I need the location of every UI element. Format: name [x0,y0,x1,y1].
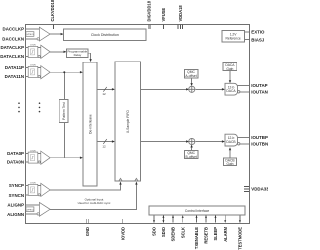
svg-text:DACB: DACB [226,140,236,144]
svg-text:CLKVDD18: CLKVDD18 [50,0,55,22]
svg-text:SDO: SDO [152,226,157,236]
svg-text:DATACLKP: DATACLKP [1,45,25,50]
svg-text:ALARM: ALARM [223,226,228,241]
svg-text:Pattern Test: Pattern Test [62,102,66,120]
svg-text:BIASJ: BIASJ [251,38,264,43]
svg-text:DATA11P: DATA11P [5,65,24,70]
svg-text:DATA11N: DATA11N [5,74,24,79]
svg-text:Gain: Gain [226,67,233,71]
svg-text:EXTIO: EXTIO [251,30,265,35]
svg-text:LVDS: LVDS [30,150,36,152]
svg-text:B-offset: B-offset [186,155,197,159]
svg-text:Delay: Delay [74,53,82,57]
svg-text:SDIO: SDIO [161,226,166,237]
svg-text:LVPECL: LVPECL [26,34,35,36]
svg-text:IOVDD: IOVDD [120,227,125,240]
svg-text:Control Interface: Control Interface [185,209,210,213]
svg-text:TESTMODE: TESTMODE [238,227,243,250]
svg-text:IOUTAP: IOUTAP [251,83,267,88]
svg-text:VFUSE: VFUSE [161,8,166,22]
svg-text:Used for multi-DAC sync: Used for multi-DAC sync [78,201,111,205]
svg-text:DACCLKP: DACCLKP [3,26,25,31]
svg-text:DATA0P: DATA0P [7,151,24,156]
svg-text:IOUTBP: IOUTBP [251,135,268,140]
svg-text:DACA: DACA [226,89,236,93]
svg-text:SYNCN: SYNCN [9,193,24,198]
svg-text:TXENABLE: TXENABLE [194,227,199,249]
svg-text:GND: GND [85,227,90,236]
svg-text:DATA0N: DATA0N [7,160,24,165]
svg-text:Gain: Gain [227,162,234,166]
svg-text:LVDS: LVDS [30,65,36,67]
svg-text:LVDS: LVDS [30,45,36,47]
svg-text:LVDS: LVDS [30,183,36,185]
svg-text:IOUTBN: IOUTBN [251,141,268,146]
svg-text:12: 12 [102,92,106,96]
svg-text:12: 12 [102,144,106,148]
svg-text:LVPECL: LVPECL [26,209,35,211]
svg-text:Clock Distribution: Clock Distribution [91,33,119,37]
svg-text:SYNCP: SYNCP [9,183,24,188]
svg-text:VDDA33: VDDA33 [251,187,268,192]
svg-text:SDENB: SDENB [171,227,176,241]
svg-text:Reference: Reference [225,36,240,40]
svg-text:8-Sample FIFO: 8-Sample FIFO [126,110,130,133]
svg-text:IOUTAN: IOUTAN [251,89,268,94]
svg-text:DIGVDD18: DIGVDD18 [147,0,152,21]
svg-text:ALIGNN: ALIGNN [7,212,24,217]
svg-text:RESETB: RESETB [204,227,209,244]
svg-text:A-offset: A-offset [185,74,196,78]
svg-text:DACCLKN: DACCLKN [2,37,24,42]
svg-text:VDDA18: VDDA18 [178,5,183,22]
svg-text:ALIGNP: ALIGNP [7,202,24,207]
svg-text:De-interleave: De-interleave [88,114,92,134]
svg-text:SCLK: SCLK [180,227,185,238]
svg-text:DATACLKN: DATACLKN [0,54,24,59]
svg-text:SLEEP: SLEEP [213,227,218,241]
